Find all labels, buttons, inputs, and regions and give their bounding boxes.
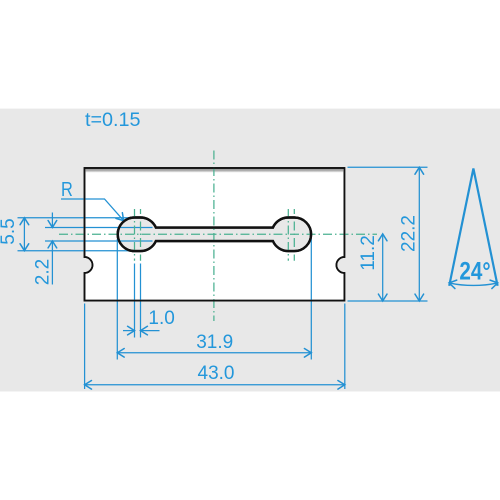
hole centerline horizontal	[59, 233, 377, 235]
center slot hole (dog-bone)	[118, 218, 311, 252]
svg-text:11.2: 11.2	[358, 235, 379, 271]
dimension 31.9	[117, 352, 311, 354]
dimension 22.2	[418, 167, 420, 301]
angle arc 24 deg	[449, 283, 498, 286]
svg-text:24°: 24°	[459, 257, 490, 285]
extension line slot top	[45, 227, 153, 229]
dimension 5.5	[23, 218, 25, 251]
extension line slot bottom	[45, 240, 153, 242]
dimension 43.0 extension lines	[84, 304, 86, 390]
svg-text:5.5: 5.5	[0, 218, 19, 244]
dimension 1.0 extension lines	[134, 264, 136, 338]
gray band	[0, 109, 500, 392]
part outline (blade body with side notches)	[85, 168, 345, 301]
dimension 2.2	[51, 213, 53, 228]
extension line circle bottom	[18, 250, 134, 252]
part outline restroke	[85, 168, 345, 301]
extension line circle top	[18, 217, 134, 219]
left hole centerline pair	[134, 209, 136, 261]
right hole centerline pair	[287, 209, 289, 261]
svg-text:22.2: 22.2	[399, 215, 420, 252]
part centerline vertical	[213, 151, 215, 322]
dimension 43.0	[85, 384, 345, 386]
blade top edge shading	[86, 169, 344, 173]
svg-text:t=0.15: t=0.15	[85, 109, 141, 131]
svg-text:2.2: 2.2	[33, 259, 54, 285]
dimension 11.2	[382, 234, 384, 301]
svg-text:43.0: 43.0	[198, 363, 235, 384]
svg-text:R: R	[61, 177, 73, 200]
dimension 22.2 extension lines	[348, 166, 428, 168]
angle gauge triangle	[449, 169, 497, 286]
dimension 31.9 extension lines	[116, 239, 118, 360]
slot hole outline restroke	[118, 218, 311, 252]
svg-text:31.9: 31.9	[196, 332, 233, 353]
svg-text:1.0: 1.0	[148, 308, 174, 329]
dimension 1.0	[123, 330, 135, 332]
